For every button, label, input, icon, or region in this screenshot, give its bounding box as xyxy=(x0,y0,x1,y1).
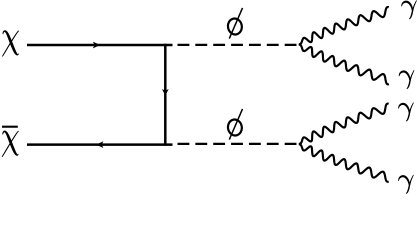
photon gamma 1 (top-up wavy) xyxy=(299,7,389,44)
incoming fermion chi label xyxy=(2,30,19,56)
arrow on bottom fermion line (leftward) xyxy=(96,141,103,148)
gamma label 3 xyxy=(398,102,414,121)
bottom phi label xyxy=(227,109,243,140)
internal fermion propagator (vertical) xyxy=(164,44,167,146)
arrow on top fermion line (rightward) xyxy=(93,42,100,49)
gamma label 1 xyxy=(401,0,417,19)
top fermion line chi xyxy=(27,44,173,47)
arrow on internal propagator (downward) xyxy=(162,89,169,96)
bottom antifermion line chi-bar xyxy=(27,143,173,146)
top phi label xyxy=(227,8,243,39)
incoming antifermion chi-bar label xyxy=(2,127,19,157)
gamma label 4 xyxy=(398,175,414,194)
top scalar phi propagator (dashed) xyxy=(178,44,297,46)
photon gamma 3 (bottom-up wavy) xyxy=(299,104,389,144)
photon gamma 2 (top-down wavy) xyxy=(299,45,389,85)
gamma label 2 xyxy=(399,70,415,89)
bottom scalar phi propagator (dashed) xyxy=(178,143,297,145)
photon gamma 4 (bottom-down wavy) xyxy=(299,144,389,182)
